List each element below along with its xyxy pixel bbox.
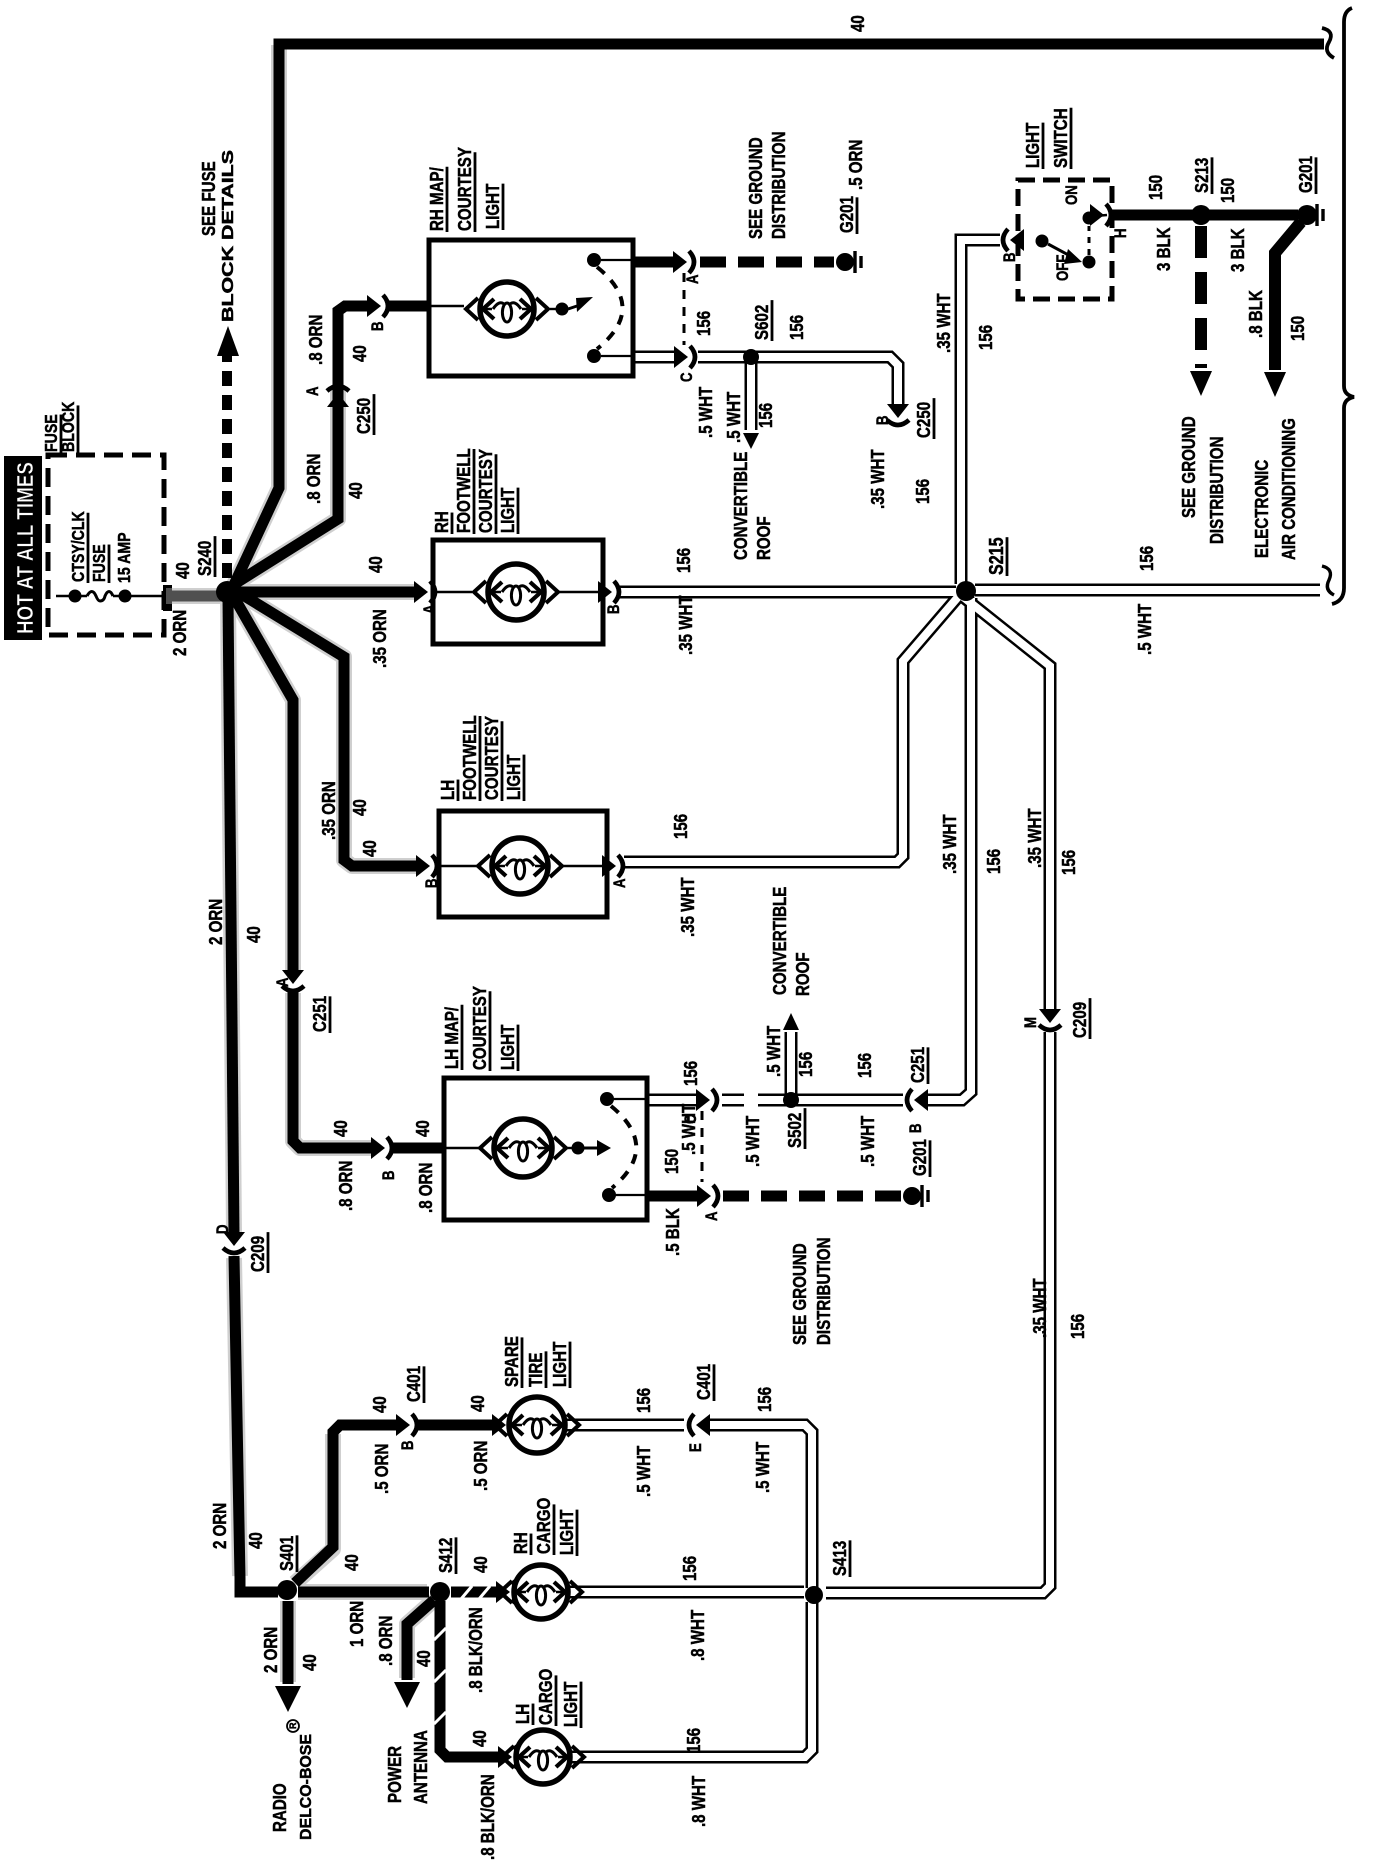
svg-text:156: 156 (754, 1387, 775, 1412)
svg-text:156: 156 (786, 315, 807, 340)
svg-text:G201: G201 (836, 196, 857, 233)
svg-text:156: 156 (795, 1052, 816, 1077)
svg-text:A: A (421, 604, 440, 614)
wire 2 ORN S240 down to C209 and S401 (228, 598, 234, 1234)
RH map door switch (550, 308, 556, 310)
wire 150 S213 to G201 (1206, 210, 1298, 221)
svg-text:40: 40 (413, 1650, 434, 1667)
svg-text:LIGHT: LIGHT (1022, 122, 1043, 168)
LH cargo light lamp (498, 1746, 519, 1768)
hook at right end of 40 wire (1322, 28, 1334, 58)
splice S602 (743, 349, 759, 365)
wire 1 ORN S401 to S412 (298, 1587, 429, 1598)
splice S413 (805, 1586, 823, 1604)
wire 2 ORN fuse to S240 (163, 585, 172, 611)
connector C251 pin A (282, 970, 304, 991)
HOT AT ALL TIMES header box (4, 456, 42, 640)
svg-text:40: 40 (469, 1730, 490, 1747)
wire 156 RH map pin C to S602 (674, 346, 695, 368)
wire 2 ORN S401 down to radio (283, 1601, 294, 1684)
wire .8 BLK/ORN S412 to LH cargo light (440, 1601, 499, 1757)
svg-text:HOT AT ALL TIMES: HOT AT ALL TIMES (12, 462, 38, 634)
svg-text:R: R (288, 1722, 298, 1729)
svg-text:S401: S401 (276, 1535, 297, 1571)
svg-text:TIRE: TIRE (525, 1353, 546, 1387)
svg-text:COURTESY: COURTESY (469, 985, 490, 1070)
connector pin B into LH footwell light (416, 855, 437, 877)
svg-text:156: 156 (755, 403, 776, 428)
svg-text:.5 WHT: .5 WHT (857, 1115, 878, 1167)
wire 3 BLK S213 down to ground distribution (1195, 226, 1207, 368)
svg-text:POWER: POWER (384, 1746, 405, 1803)
svg-text:D: D (214, 1224, 233, 1234)
svg-text:B: B (380, 1170, 399, 1180)
svg-text:DISTRIBUTION: DISTRIBUTION (813, 1238, 834, 1345)
svg-text:.5 WHT: .5 WHT (1134, 603, 1155, 655)
svg-text:.8 WHT: .8 WHT (687, 1609, 708, 1661)
splice S502 wire up to convertible roof (783, 1013, 799, 1030)
svg-text:.35 WHT: .35 WHT (933, 293, 954, 353)
svg-text:.8 ORN: .8 ORN (335, 1161, 356, 1211)
svg-text:.8 WHT: .8 WHT (688, 1775, 709, 1827)
svg-text:COURTESY: COURTESY (475, 448, 496, 533)
LH footwell lamp (439, 865, 477, 867)
svg-text:COURTESY: COURTESY (481, 715, 502, 800)
svg-text:156: 156 (670, 814, 691, 839)
svg-text:A: A (684, 274, 703, 284)
LH map/courtesy light box (444, 1078, 647, 1220)
svg-text:15 AMP: 15 AMP (115, 532, 135, 583)
svg-text:40: 40 (470, 1556, 491, 1573)
svg-text:2 ORN: 2 ORN (169, 610, 190, 656)
LH footwell courtesy light box (439, 811, 607, 917)
svg-text:S412: S412 (435, 1538, 456, 1573)
svg-text:40: 40 (172, 562, 193, 579)
svg-text:S602: S602 (751, 305, 772, 340)
connector pin B into LH map light (371, 1137, 392, 1159)
light switch pin B chevron (1003, 229, 1024, 251)
splice S215 (956, 581, 976, 601)
svg-text:SPARE: SPARE (501, 1336, 522, 1387)
connector pin B into RH map light (367, 295, 388, 317)
scan halo on orange feed wires (166, 45, 434, 1682)
svg-text:C250: C250 (913, 402, 934, 438)
svg-text:2 ORN: 2 ORN (205, 899, 226, 945)
svg-text:.5 WHT: .5 WHT (742, 1115, 763, 1167)
svg-text:SEE GROUND: SEE GROUND (745, 137, 766, 239)
svg-text:40: 40 (243, 926, 264, 943)
svg-text:156: 156 (683, 1728, 704, 1753)
svg-text:FOOTWELL: FOOTWELL (459, 715, 480, 800)
connector dashed line between RH map pins A and C (683, 273, 686, 345)
svg-text:B: B (1001, 252, 1020, 262)
svg-text:ANTENNA: ANTENNA (410, 1730, 431, 1804)
svg-text:LIGHT: LIGHT (497, 487, 518, 533)
svg-text:ELECTRONIC: ELECTRONIC (1251, 460, 1272, 558)
svg-text:OFF: OFF (1054, 255, 1073, 281)
svg-text:156: 156 (1067, 1314, 1088, 1339)
svg-text:SWITCH: SWITCH (1050, 108, 1071, 168)
svg-text:3 BLK: 3 BLK (1153, 227, 1174, 271)
svg-text:C251: C251 (907, 1046, 928, 1083)
wire 150 3 BLK light switch H to S213 (1112, 210, 1196, 221)
LH map door switch (566, 1147, 572, 1149)
svg-text:CTSY/CLK: CTSY/CLK (69, 511, 89, 582)
svg-text:B: B (874, 415, 893, 425)
svg-text:156: 156 (679, 1556, 700, 1581)
svg-text:150: 150 (1287, 316, 1308, 341)
svg-text:G201: G201 (909, 1139, 930, 1176)
svg-text:SEE FUSE: SEE FUSE (198, 161, 219, 236)
svg-text:LIGHT: LIGHT (549, 1341, 570, 1387)
svg-text:B: B (369, 321, 388, 331)
splice S602 wire down to convertible roof (743, 433, 759, 449)
svg-text:C209: C209 (1069, 1002, 1090, 1038)
RH cargo light lamp (496, 1581, 517, 1603)
hollow white-wire strokes (outlines) (633, 351, 676, 364)
fuse element CTSY/CLK 15A (56, 595, 87, 598)
svg-text:.5 WHT: .5 WHT (763, 1025, 784, 1077)
splice S213 (1191, 205, 1211, 225)
svg-text:.35 ORN: .35 ORN (369, 609, 390, 668)
spare tire light lamp (492, 1414, 513, 1436)
svg-text:S213: S213 (1191, 158, 1212, 193)
svg-text:LIGHT: LIGHT (503, 754, 524, 800)
svg-text:40: 40 (369, 1396, 390, 1413)
svg-text:A: A (274, 977, 293, 987)
svg-text:156: 156 (680, 1061, 701, 1086)
connector C401 pin E (689, 1414, 710, 1436)
svg-text:.35 WHT: .35 WHT (939, 814, 960, 874)
svg-text:156: 156 (633, 1388, 654, 1413)
LH map lamp (444, 1147, 479, 1149)
svg-text:.8 BLK/ORN: .8 BLK/ORN (465, 1607, 486, 1693)
svg-text:E: E (687, 1443, 706, 1452)
svg-text:A: A (304, 386, 323, 396)
svg-text:C250: C250 (353, 398, 374, 434)
splice S412 (430, 1582, 450, 1602)
wire .8 ORN S240 to C251 to LH map light (231, 592, 293, 975)
svg-text:ROOF: ROOF (753, 516, 774, 560)
svg-text:40: 40 (359, 840, 380, 857)
svg-text:.35 WHT: .35 WHT (677, 877, 698, 937)
svg-text:ROOF: ROOF (792, 952, 813, 996)
svg-text:40: 40 (847, 15, 868, 32)
RH map/courtesy light box (429, 240, 633, 376)
svg-text:COURTESY: COURTESY (454, 146, 475, 231)
svg-text:1 ORN: 1 ORN (346, 1601, 367, 1647)
svg-text:.5 WHT: .5 WHT (695, 386, 716, 438)
svg-text:.8 BLK: .8 BLK (1245, 290, 1266, 338)
light switch dashed box (1018, 180, 1112, 299)
svg-text:156: 156 (854, 1053, 875, 1078)
svg-text:150: 150 (1145, 175, 1166, 200)
svg-text:150: 150 (661, 1149, 682, 1174)
svg-text:LIGHT: LIGHT (497, 1024, 518, 1070)
svg-text:C251: C251 (309, 995, 330, 1032)
svg-text:C401: C401 (693, 1363, 714, 1400)
connector C251 pin B (907, 1089, 928, 1111)
hollow white-wire cores (633, 353, 676, 361)
svg-text:40: 40 (365, 556, 386, 573)
svg-text:CARGO: CARGO (535, 1669, 556, 1725)
svg-text:.5 ORN: .5 ORN (371, 1444, 392, 1494)
svg-text:B: B (605, 604, 624, 614)
svg-text:40: 40 (245, 1532, 266, 1549)
svg-text:40: 40 (345, 482, 366, 499)
wire .8 ORN S240 to C250 to RH map light (233, 387, 338, 585)
svg-text:156: 156 (1058, 850, 1079, 875)
svg-text:40: 40 (299, 1654, 320, 1671)
connector C250 pin B (887, 404, 909, 425)
svg-text:SEE GROUND: SEE GROUND (789, 1243, 810, 1345)
svg-text:156: 156 (1136, 546, 1157, 571)
svg-text:3 BLK: 3 BLK (1227, 228, 1248, 272)
svg-text:.35 ORN: .35 ORN (318, 781, 339, 840)
svg-text:B: B (907, 1123, 926, 1133)
wire ground RH map pin A to G201 (635, 257, 676, 268)
svg-text:.5 WHT: .5 WHT (678, 1103, 699, 1155)
svg-text:40: 40 (349, 799, 370, 816)
hook at right end of 156 wire (1322, 566, 1334, 595)
dashed arrow SEE FUSE BLOCK DETAILS (222, 356, 232, 578)
svg-text:FOOTWELL: FOOTWELL (453, 448, 474, 533)
svg-text:ON: ON (1063, 185, 1082, 205)
svg-text:C: C (678, 372, 697, 382)
svg-text:RADIO: RADIO (269, 1783, 290, 1832)
wire .5 BLK LH map pin A to G201 (649, 1191, 697, 1202)
RH footwell lamp (433, 591, 472, 593)
svg-text:.8 ORN: .8 ORN (375, 1616, 396, 1666)
svg-text:A: A (703, 1211, 722, 1221)
svg-text:M: M (1022, 1017, 1041, 1028)
svg-text:LH: LH (437, 780, 458, 800)
svg-text:DISTRIBUTION: DISTRIBUTION (1206, 437, 1227, 544)
svg-text:A: A (611, 878, 630, 888)
svg-text:.35 WHT: .35 WHT (1024, 808, 1045, 868)
wire 40 .35 ORN S240 to RH footwell light (235, 587, 420, 598)
connector pin A RH footwell (414, 581, 435, 603)
light switch internals OFF/ON (1036, 235, 1049, 248)
connector C401 pin B (396, 1414, 417, 1436)
wire .8 ORN S412 to power antenna (407, 1600, 434, 1680)
svg-text:C401: C401 (403, 1365, 424, 1402)
svg-text:G201: G201 (1295, 156, 1316, 193)
svg-text:LIGHT: LIGHT (482, 183, 503, 229)
wire 156 LH map pin C to S502 (696, 1089, 717, 1111)
svg-text:156: 156 (912, 479, 933, 504)
svg-text:40: 40 (412, 1120, 433, 1137)
svg-text:CONVERTIBLE: CONVERTIBLE (769, 887, 790, 995)
svg-text:B: B (399, 1440, 418, 1450)
connector pin A LH footwell right (602, 855, 623, 877)
svg-text:40: 40 (349, 345, 370, 362)
connector C209 pin M (1039, 1009, 1061, 1030)
svg-text:BLOCK DETAILS: BLOCK DETAILS (220, 150, 237, 322)
RH map lamp (429, 305, 464, 307)
svg-text:RH MAP/: RH MAP/ (426, 167, 447, 231)
svg-text:.8 BLK/ORN: .8 BLK/ORN (477, 1774, 498, 1860)
svg-text:.35 WHT: .35 WHT (675, 595, 696, 655)
svg-text:LH: LH (512, 1704, 533, 1724)
right page brace (1332, 8, 1354, 604)
connector pin B RH footwell (598, 581, 619, 603)
svg-text:H: H (1112, 228, 1131, 238)
connector C209 pin D (223, 1232, 245, 1253)
svg-text:LIGHT: LIGHT (560, 1681, 581, 1727)
svg-text:C209: C209 (247, 1236, 268, 1272)
svg-text:2 ORN: 2 ORN (260, 1627, 281, 1673)
svg-text:S502: S502 (784, 1113, 805, 1148)
svg-text:DISTRIBUTION: DISTRIBUTION (768, 132, 789, 239)
svg-text:BLOCK: BLOCK (59, 401, 79, 452)
svg-text:.5 ORN: .5 ORN (845, 140, 866, 190)
svg-text:S215: S215 (985, 537, 1007, 575)
svg-text:40: 40 (330, 1120, 351, 1137)
svg-text:.5 WHT: .5 WHT (752, 1441, 773, 1493)
svg-text:RH: RH (431, 511, 452, 533)
svg-text:DELCO-BOSE: DELCO-BOSE (298, 1734, 315, 1840)
splice S401 (277, 1580, 297, 1600)
wire .8 BLK/ORN S412 to RH cargo light (451, 1587, 499, 1598)
splice S240 (216, 581, 238, 603)
svg-text:.8 ORN: .8 ORN (303, 454, 324, 504)
wire .8 BLK G201 to electronic air conditioning (1275, 222, 1301, 370)
svg-text:CARGO: CARGO (533, 1498, 554, 1554)
svg-text:40: 40 (467, 1395, 488, 1412)
svg-text:150: 150 (1217, 178, 1238, 203)
svg-text:156: 156 (693, 311, 714, 336)
svg-text:LH MAP/: LH MAP/ (441, 1007, 462, 1069)
connector C250 pin A (327, 386, 349, 407)
svg-text:.5 BLK: .5 BLK (662, 1208, 683, 1256)
wire .35 ORN S240 to LH footwell light (233, 589, 421, 866)
svg-text:156: 156 (975, 325, 996, 350)
connector dashed line between LH map pins C and A (701, 1111, 704, 1182)
svg-text:156: 156 (673, 548, 694, 573)
svg-text:LIGHT: LIGHT (556, 1509, 577, 1555)
svg-text:FUSE: FUSE (90, 544, 110, 582)
fuse block dashed box (48, 455, 164, 635)
svg-text:RH: RH (510, 1532, 531, 1554)
svg-text:2 ORN: 2 ORN (209, 1503, 230, 1549)
svg-text:.5 ORN: .5 ORN (470, 1441, 491, 1491)
wire .5 ORN S401 to C401 to spare tire light (295, 1425, 401, 1583)
svg-text:S413: S413 (829, 1541, 850, 1576)
svg-text:SEE GROUND: SEE GROUND (1178, 416, 1199, 518)
svg-text:.8 ORN: .8 ORN (415, 1163, 436, 1213)
svg-text:.8 ORN: .8 ORN (305, 315, 326, 365)
svg-text:40: 40 (341, 1554, 362, 1571)
wire 40 to top frame from S240 (233, 44, 1324, 587)
svg-text:.35 WHT: .35 WHT (1029, 1278, 1050, 1338)
svg-text:.35 WHT: .35 WHT (867, 449, 888, 509)
svg-text:.5 WHT: .5 WHT (633, 1445, 654, 1497)
splice S502 (783, 1092, 799, 1108)
svg-text:AIR CONDITIONING: AIR CONDITIONING (1278, 418, 1299, 560)
RH footwell courtesy light box (433, 540, 603, 644)
svg-text:156: 156 (983, 849, 1004, 874)
light switch pin H chevron (1090, 204, 1111, 226)
svg-text:S240: S240 (194, 541, 215, 576)
svg-text:CONVERTIBLE: CONVERTIBLE (730, 452, 751, 560)
svg-text:.5 WHT: .5 WHT (723, 391, 744, 443)
